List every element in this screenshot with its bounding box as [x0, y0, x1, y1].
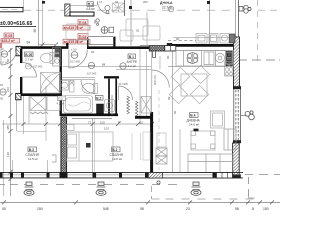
svg-text:90: 90 — [173, 110, 177, 114]
svg-text:В.2: В.2 — [112, 148, 117, 152]
svg-text:210: 210 — [6, 87, 10, 92]
svg-text:617.965: 617.965 — [70, 60, 81, 64]
svg-text:88: 88 — [102, 62, 106, 66]
svg-text:385: 385 — [6, 125, 10, 130]
svg-text:2.7 м²: 2.7 м² — [25, 57, 33, 61]
svg-text:260: 260 — [143, 0, 148, 4]
svg-text:617.965: 617.965 — [153, 75, 157, 86]
svg-text:8: 8 — [252, 207, 254, 211]
svg-text:4.2 м²: 4.2 м² — [57, 101, 65, 105]
svg-text:00: 00 — [0, 97, 4, 101]
svg-text:П.2: П.2 — [58, 97, 63, 101]
svg-text:В5: В5 — [0, 83, 4, 87]
svg-text:150: 150 — [37, 207, 43, 211]
svg-text:90: 90 — [167, 96, 171, 100]
svg-text:90: 90 — [6, 58, 10, 62]
svg-text:4.2 м²: 4.2 м² — [128, 64, 136, 68]
svg-text:В.3: В.3 — [29, 148, 34, 152]
svg-text:617.965: 617.965 — [87, 72, 97, 76]
svg-text:97: 97 — [118, 120, 122, 124]
svg-text:98: 98 — [140, 207, 144, 211]
svg-text:105: 105 — [100, 120, 105, 124]
svg-text:94: 94 — [115, 0, 119, 4]
svg-text:98: 98 — [235, 207, 239, 211]
svg-text:103: 103 — [104, 127, 109, 131]
svg-text:545: 545 — [103, 207, 109, 211]
svg-text:10: 10 — [140, 120, 144, 124]
svg-text:94: 94 — [91, 50, 95, 54]
svg-text:± 90: ± 90 — [71, 48, 77, 52]
svg-text:В.2: В.2 — [96, 96, 101, 100]
svg-text:В.1: В.1 — [129, 55, 134, 59]
svg-text:617.965: 617.965 — [119, 82, 129, 86]
svg-text:98: 98 — [33, 29, 37, 33]
svg-text:П.05: П.05 — [5, 34, 13, 38]
svg-text:П.03: П.03 — [79, 35, 87, 39]
svg-text:17: 17 — [99, 0, 103, 4]
svg-text:12.8 м²: 12.8 м² — [112, 157, 122, 161]
svg-text:71: 71 — [88, 120, 92, 124]
svg-text:90: 90 — [176, 37, 180, 41]
svg-text:23: 23 — [186, 207, 190, 211]
svg-text:В.4: В.4 — [190, 114, 195, 118]
svg-text:92: 92 — [136, 29, 140, 33]
svg-text:ап.615 75 м²: ап.615 75 м² — [64, 26, 84, 30]
svg-text:24.6 м²: 24.6 м² — [189, 122, 199, 126]
svg-text:11.5 м²: 11.5 м² — [28, 157, 38, 161]
svg-text:00: 00 — [1, 47, 5, 51]
svg-text:94: 94 — [27, 41, 31, 45]
svg-text:90: 90 — [166, 55, 170, 59]
svg-text:±0.00=616.65: ±0.00=616.65 — [0, 21, 33, 27]
svg-text:615.2 м²: 615.2 м² — [2, 39, 16, 43]
svg-text:617.965: 617.965 — [33, 64, 43, 68]
svg-text:4.8 м²: 4.8 м² — [86, 7, 95, 11]
svg-text:05: 05 — [2, 207, 6, 211]
svg-text:120: 120 — [6, 152, 10, 157]
svg-text:П.1: П.1 — [88, 3, 93, 7]
svg-text:150: 150 — [263, 207, 269, 211]
svg-text:Д+КН-А: Д+КН-А — [160, 1, 173, 5]
svg-text:В.05: В.05 — [25, 53, 32, 57]
